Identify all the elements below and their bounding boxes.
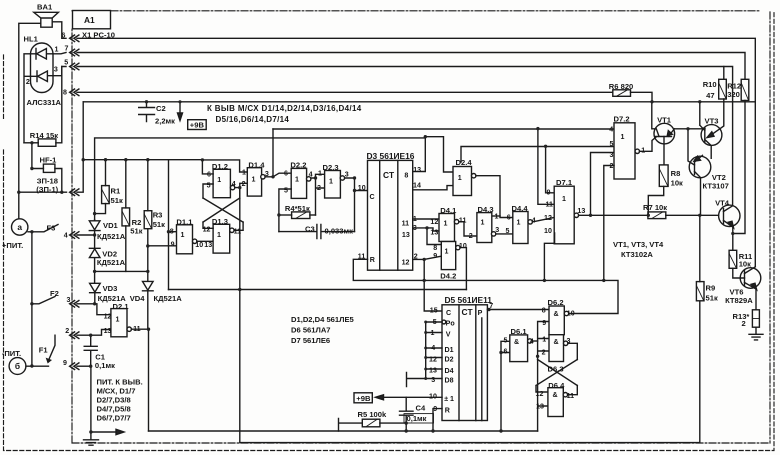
svg-text:1: 1 <box>562 195 566 203</box>
wire R4 left <box>279 214 292 216</box>
svg-text:R14 15к: R14 15к <box>30 131 58 140</box>
resistor R12 <box>741 79 749 100</box>
svg-text:КД521А: КД521А <box>154 294 183 303</box>
svg-text:51к: 51к <box>153 220 165 229</box>
svg-text:0,1мк: 0,1мк <box>407 414 427 423</box>
connector pin 8 arrow <box>70 89 79 96</box>
wire R14 left <box>24 142 38 144</box>
connector pin 2 arrow <box>70 332 79 339</box>
connector pin 4 arrow <box>70 232 79 239</box>
svg-text:4: 4 <box>609 125 613 133</box>
svg-text:D6.2: D6.2 <box>548 298 564 307</box>
wire D7.1 out to R7 with D7.2 pin3 branch <box>579 153 648 216</box>
svg-text:12: 12 <box>203 225 211 233</box>
svg-text:1: 1 <box>295 176 299 184</box>
wire D4.3 out to D4.4 pin5 <box>496 233 513 235</box>
resistor R11 <box>729 250 737 268</box>
svg-text:М/СХ, D1/7: М/СХ, D1/7 <box>97 387 136 396</box>
wire D7.2 out to VT1 base <box>640 137 657 152</box>
svg-text:1: 1 <box>621 133 625 141</box>
diode VD4 <box>143 246 154 329</box>
wire D2.4 out down to D4.3 top <box>476 176 513 218</box>
svg-text:51к: 51к <box>706 293 718 302</box>
svg-text:D4: D4 <box>445 367 454 375</box>
transistor VT3 <box>701 125 722 146</box>
gate D7.2 output bubble <box>635 149 639 153</box>
bottom rail y431 <box>149 430 538 432</box>
svg-text:D8: D8 <box>445 376 454 384</box>
LED display HL1 stadium body <box>31 43 54 93</box>
svg-text:10: 10 <box>567 310 575 318</box>
D5 left input bus <box>426 322 442 379</box>
svg-text:6: 6 <box>62 32 66 40</box>
svg-text:2: 2 <box>469 232 473 240</box>
gate D2.4 output bubble <box>472 174 476 178</box>
svg-text:2: 2 <box>414 253 418 261</box>
svg-text:R7 10к: R7 10к <box>643 203 667 212</box>
svg-text:VD4: VD4 <box>130 294 146 303</box>
wire D3 pin14 output to D2.4 pin8 <box>413 186 453 190</box>
svg-text:К ВЫВ М/СХ D1/14,D2/14,D3/16,: К ВЫВ М/СХ D1/14,D2/14,D3/16,D4/14 <box>207 104 362 113</box>
svg-text:2: 2 <box>610 162 614 170</box>
svg-text:3: 3 <box>413 224 417 232</box>
counter D3 561IE16 box <box>368 160 413 270</box>
wire D1.4 out to D2.2 pin6 and up-branch <box>265 129 291 177</box>
svg-text:7: 7 <box>65 45 69 53</box>
svg-text:&: & <box>553 391 558 399</box>
wire HF-1 left <box>32 143 44 169</box>
wire net x537.6 (D6 latch common) <box>538 322 549 432</box>
svg-text:3: 3 <box>431 376 435 384</box>
wire W2 y289.5 <box>169 289 467 291</box>
svg-text:D5/16,D6/14,D7/14: D5/16,D6/14,D7/14 <box>216 115 290 124</box>
svg-text:3: 3 <box>567 337 571 345</box>
capacitor C2 <box>139 102 155 122</box>
svg-text:3: 3 <box>345 170 349 178</box>
svg-text:D1.2: D1.2 <box>212 162 228 171</box>
gate D4.1 output bubble <box>454 220 458 224</box>
ground symbol under R13 <box>749 327 763 340</box>
resistor R5 <box>362 419 380 427</box>
svg-text:D5 561ИЕ11: D5 561ИЕ11 <box>445 295 493 305</box>
svg-text:11: 11 <box>234 227 242 235</box>
switch F1 arrowhead <box>47 359 51 363</box>
gate D2.3 output bubble <box>340 176 344 180</box>
svg-text:D6 561ЛА7: D6 561ЛА7 <box>291 325 331 334</box>
wire A: D1.4 net to D7.2 pin4 / D7.1 pin11 <box>273 128 614 204</box>
wire pin8 rail to R6 <box>77 91 613 93</box>
connector pin 5 arrow <box>70 63 79 70</box>
wire C1 bottom down to ground <box>90 366 92 432</box>
resistor R13 <box>752 310 759 327</box>
svg-text:4: 4 <box>64 232 68 240</box>
wire lower contact row y192 <box>19 102 83 192</box>
wire R14 right up to pin5 net <box>56 67 62 143</box>
svg-text:6: 6 <box>284 169 288 177</box>
svg-text:7: 7 <box>489 302 493 310</box>
svg-text:10к: 10к <box>671 178 683 187</box>
resistor R6 <box>613 90 631 97</box>
wire D2.2 pin5 <box>279 189 291 232</box>
switch F1 <box>48 335 55 361</box>
svg-text:F1: F1 <box>39 345 49 354</box>
wire D6.3 out to cross <box>568 343 577 359</box>
svg-text:D7 561ЛЕ6: D7 561ЛЕ6 <box>291 336 330 345</box>
connector pin 6 arrow <box>70 35 79 42</box>
svg-text:R10: R10 <box>703 80 717 89</box>
svg-text:10: 10 <box>459 242 467 250</box>
svg-text:13: 13 <box>402 231 410 239</box>
svg-text:3: 3 <box>495 226 499 234</box>
wire R10 bottom into VT3 emitter <box>709 99 724 137</box>
svg-text:D4/7,D5/8: D4/7,D5/8 <box>97 405 131 414</box>
svg-text:D4.3: D4.3 <box>478 205 494 214</box>
svg-text:2,2мк: 2,2мк <box>155 117 175 126</box>
wire speaker left to main left vertical <box>19 23 41 219</box>
svg-text:13: 13 <box>204 241 212 249</box>
wire R8 bottom to R7 left node <box>648 186 663 215</box>
svg-text:D7.2: D7.2 <box>614 114 630 123</box>
svg-text:12: 12 <box>430 218 438 226</box>
wire R11 bottom to VT6 base <box>733 268 745 278</box>
svg-text:0,1мк: 0,1мк <box>95 361 115 370</box>
svg-text:12: 12 <box>429 356 437 364</box>
svg-text:VT4: VT4 <box>715 199 730 208</box>
svg-text:13: 13 <box>430 229 438 237</box>
svg-text:10: 10 <box>195 241 203 249</box>
gate D1.4 <box>247 168 261 196</box>
svg-text:47: 47 <box>706 91 714 100</box>
svg-text:1: 1 <box>217 176 221 184</box>
wire D3 pin13 output stub <box>413 137 426 172</box>
svg-text:5: 5 <box>506 227 510 235</box>
+9V tap arrow near C2 <box>179 104 181 115</box>
diode VD1 <box>89 220 100 249</box>
svg-text:&: & <box>514 338 519 346</box>
gate D4.1 <box>439 214 455 242</box>
gate D2.1 output bubble <box>127 327 131 331</box>
wire x240.6 down to bottom rail B <box>240 188 700 443</box>
transistor VT6 <box>740 268 761 289</box>
svg-text:1: 1 <box>242 169 246 177</box>
svg-text:9: 9 <box>63 359 67 367</box>
svg-text:R9: R9 <box>706 284 716 293</box>
gate D4.2 <box>441 242 455 270</box>
resistor R3 <box>144 211 152 229</box>
svg-text:D4.4: D4.4 <box>512 204 529 213</box>
wire D2.3 out to D3 pin C <box>345 178 368 232</box>
gate D4.3 output bubble <box>491 232 495 236</box>
svg-text:1: 1 <box>542 336 546 344</box>
svg-text:1: 1 <box>252 176 256 184</box>
wire D6.1 inputs vertical x501 <box>501 341 510 431</box>
gate D4.4 output bubble <box>528 220 532 224</box>
svg-text:+9В: +9В <box>190 121 205 130</box>
wire VT1 emitter line to VT3 base <box>674 128 705 130</box>
gate D4.4 <box>513 212 528 244</box>
svg-text:D2.4: D2.4 <box>456 158 473 167</box>
svg-text:11: 11 <box>546 201 554 209</box>
svg-text:F2: F2 <box>50 289 59 298</box>
diode VD2 <box>89 248 100 271</box>
svg-text:HF-1: HF-1 <box>40 156 58 165</box>
switch F2 <box>32 297 111 315</box>
wire R2 bottom <box>125 226 127 272</box>
svg-text:2: 2 <box>317 184 321 192</box>
svg-text:1: 1 <box>116 316 120 324</box>
diode VD3 <box>90 271 101 303</box>
transistor VT4 <box>719 205 740 226</box>
svg-text:13: 13 <box>536 403 544 411</box>
gate D1.2 <box>213 169 230 197</box>
wire W1 feedback y280 to D6.2-out net <box>424 280 618 313</box>
svg-text:R3: R3 <box>153 211 163 220</box>
resistor R7 <box>648 212 666 219</box>
svg-text:9: 9 <box>433 252 437 260</box>
svg-text:8: 8 <box>433 244 437 252</box>
svg-text:9: 9 <box>542 319 546 327</box>
wire VD4 vertical down to bottom rail <box>148 329 150 431</box>
wire rail net pin7 to R12 <box>77 53 745 80</box>
svg-text:4: 4 <box>530 338 534 346</box>
svg-text:1: 1 <box>495 212 499 220</box>
svg-text:8: 8 <box>170 227 174 235</box>
svg-text:13: 13 <box>104 327 112 335</box>
wire HL1 pin1 to connector pin 7 <box>53 53 66 54</box>
D5 inner column lines <box>459 305 482 421</box>
svg-text:1: 1 <box>641 146 645 154</box>
svg-text:VD3: VD3 <box>103 284 118 293</box>
svg-text:-ПИТ.: -ПИТ. <box>2 349 21 358</box>
svg-text:R8: R8 <box>671 169 681 178</box>
svg-text:10: 10 <box>429 393 437 401</box>
svg-text:6: 6 <box>504 347 508 355</box>
terminal circle b <box>9 358 26 375</box>
gate D2.3 <box>325 171 341 199</box>
A1 box <box>73 11 111 29</box>
svg-text:D1: D1 <box>445 346 454 354</box>
gate D6.3 output bubble <box>564 341 568 345</box>
+9V arrowhead <box>376 395 384 400</box>
wire rail net pin5 to VT4 collector <box>77 67 733 206</box>
svg-text:11: 11 <box>459 216 467 224</box>
svg-text:5: 5 <box>504 337 508 345</box>
svg-text:б: б <box>15 361 20 371</box>
resistor R8 <box>659 165 668 187</box>
svg-text:R5 100k: R5 100k <box>358 410 387 419</box>
gate D6.4 <box>548 388 563 417</box>
svg-text:5: 5 <box>64 59 68 67</box>
gate D6.4 output bubble <box>563 393 567 397</box>
wire D7.2 pin2 from D6 net <box>604 166 614 280</box>
svg-text:11: 11 <box>567 392 575 400</box>
svg-text:R: R <box>445 406 450 414</box>
svg-text:КТ3102А: КТ3102А <box>621 250 653 259</box>
svg-text:A1: A1 <box>84 15 95 25</box>
gate D4.2 output bubble <box>456 245 460 249</box>
gate D1.1 <box>177 225 193 254</box>
svg-text:D7.1: D7.1 <box>556 178 573 187</box>
svg-text:D2: D2 <box>445 355 454 363</box>
wire feedback vertical x168.5 <box>168 160 170 290</box>
svg-text:14: 14 <box>413 181 421 189</box>
svg-text:D1.4: D1.4 <box>248 160 265 169</box>
svg-text:11: 11 <box>133 325 141 333</box>
gate D1.1 output bubble <box>193 239 197 243</box>
wire R1 top <box>105 160 107 186</box>
svg-text:1: 1 <box>329 178 333 186</box>
gate D1.3 output bubble <box>230 228 234 232</box>
wire D6.4 out to cross <box>568 386 578 395</box>
wire pin9 net to C1 bottom <box>77 365 91 367</box>
svg-text:5: 5 <box>284 186 288 194</box>
svg-text:V: V <box>446 330 451 338</box>
wire diode row y271.4 <box>95 270 148 272</box>
wire D6.1 out to x537.6 net <box>532 340 538 342</box>
gate D6.1 output bubble <box>528 339 532 343</box>
svg-text:КД521А: КД521А <box>97 232 126 241</box>
svg-text:6: 6 <box>207 170 211 178</box>
svg-text:1: 1 <box>444 220 448 228</box>
connector pin 7 arrow <box>70 49 79 56</box>
svg-text:4: 4 <box>232 180 236 188</box>
svg-text:4: 4 <box>532 216 536 224</box>
wire D5 P out to D6.2 pin8 <box>487 309 549 311</box>
gate D6.1 <box>510 335 528 362</box>
gate D1.2 output bubble <box>230 185 234 189</box>
switch F3 <box>28 225 95 236</box>
svg-text:D6.1: D6.1 <box>511 327 528 336</box>
svg-text:CT: CT <box>383 170 395 180</box>
svg-text:VT3: VT3 <box>705 116 719 125</box>
buzzer HF-1 box <box>43 164 55 172</box>
wire speaker right to pin 6 <box>52 22 66 39</box>
svg-text:51к: 51к <box>130 227 142 236</box>
junction dots <box>17 191 20 194</box>
svg-text:8: 8 <box>404 172 408 180</box>
wire D1.4 pin1 from top bus <box>202 160 247 172</box>
gate D2.2 output bubble <box>307 177 311 181</box>
wire D4.2 out down to W2 <box>460 248 466 290</box>
svg-text:D2/7,D3/8: D2/7,D3/8 <box>97 396 131 405</box>
wire D4.3 pin1 entry <box>492 215 500 217</box>
svg-text:12: 12 <box>104 312 112 320</box>
svg-text:9: 9 <box>547 188 551 196</box>
svg-text:D4.1: D4.1 <box>440 206 457 215</box>
svg-text:3: 3 <box>54 66 58 74</box>
frame around C4 value <box>404 414 434 423</box>
svg-text:C2: C2 <box>156 104 166 113</box>
wire C: y146 to D7.2 pin5 / D7.1 pin9 <box>461 146 614 193</box>
capacitor C4 <box>400 397 414 431</box>
svg-text:P: P <box>478 309 483 317</box>
gate D1.4 output bubble <box>261 175 265 179</box>
power arrow pointer to chip pins <box>91 431 116 433</box>
transistor VT2 <box>689 156 711 178</box>
+9V box frame lower <box>354 393 372 403</box>
svg-text:9: 9 <box>433 405 437 413</box>
svg-text:12: 12 <box>402 259 410 267</box>
svg-text:а: а <box>17 222 22 232</box>
svg-text:1: 1 <box>55 46 59 54</box>
wire D1.1 out to D1.3 pin13 <box>197 240 213 242</box>
wire D1.2 pin6 from bus <box>202 160 213 174</box>
wire HF-1 right down to lower arrow <box>55 169 62 193</box>
svg-text:ЗП-18: ЗП-18 <box>37 176 58 185</box>
svg-text:C4: C4 <box>416 404 426 413</box>
svg-text:8: 8 <box>542 306 546 314</box>
wire pin2 net to D2.1 pin13 <box>77 330 111 336</box>
svg-text:BA1: BA1 <box>37 3 53 12</box>
svg-text:12: 12 <box>536 390 544 398</box>
svg-text:F3: F3 <box>47 224 56 233</box>
svg-text:VT1: VT1 <box>657 116 672 125</box>
svg-text:D4.2: D4.2 <box>440 271 456 280</box>
svg-text:11: 11 <box>402 220 410 228</box>
svg-text:C: C <box>446 309 451 317</box>
cross-couple X D1.2/D1.3 <box>203 198 243 222</box>
D5 Po bubble <box>442 320 446 324</box>
svg-text:(ЗП-1): (ЗП-1) <box>36 185 58 194</box>
wire HL1 pin3 up to connector pin 5 <box>53 67 66 76</box>
wire R5 right to C4 <box>380 422 406 424</box>
svg-text:1: 1 <box>517 219 521 227</box>
svg-text:+ПИТ.: +ПИТ. <box>2 241 23 250</box>
gate D7.1 output bubble <box>574 213 578 217</box>
wire R3 top <box>147 160 149 211</box>
svg-text:D1.1: D1.1 <box>176 217 193 226</box>
D3 inner column lines <box>380 160 398 270</box>
gate D6.2 <box>549 306 564 335</box>
svg-text:R2: R2 <box>132 218 142 227</box>
svg-text:D2.2: D2.2 <box>290 161 306 170</box>
gate D2.2 <box>291 168 306 198</box>
gate D7.1 <box>554 186 574 244</box>
svg-text:КД521А: КД521А <box>97 258 126 267</box>
R5 left bar terminator <box>339 419 363 432</box>
svg-text:АЛС331А: АЛС331А <box>27 98 62 107</box>
wire HL1 cathodes to left vertical x24 <box>24 54 37 143</box>
svg-text:+9В: +9В <box>356 394 371 403</box>
svg-text:10: 10 <box>358 184 366 192</box>
svg-text:D3 561ИЕ16: D3 561ИЕ16 <box>367 151 415 161</box>
svg-text:0,033мк: 0,033мк <box>325 226 354 235</box>
svg-text:1: 1 <box>431 329 435 337</box>
wire R7 right to VT4 base <box>666 214 719 216</box>
connector pin 9 arrow <box>70 363 79 370</box>
wire D7.1 pin10 zig to W1 <box>544 233 554 280</box>
+9V rail y101.8 <box>83 101 755 103</box>
svg-text:5: 5 <box>207 181 211 189</box>
svg-text:4: 4 <box>309 170 313 178</box>
svg-text:VT1, VT3, VT4: VT1, VT3, VT4 <box>613 240 664 249</box>
svg-text:R1: R1 <box>111 187 121 196</box>
svg-text:HL1: HL1 <box>24 35 39 44</box>
wire R12 bottom down to VT4 emitter net <box>733 101 745 234</box>
svg-text:9: 9 <box>171 240 175 248</box>
wire R3 bottom to VD4/D1.1 pin9 <box>148 229 177 246</box>
svg-text:15: 15 <box>430 306 438 314</box>
gate D1.3 <box>213 224 230 253</box>
svg-text:8: 8 <box>63 89 67 97</box>
svg-text:&: & <box>554 338 559 346</box>
gate D6.3 <box>549 335 564 362</box>
gate D7.2 <box>614 123 635 179</box>
resistor R9 <box>696 282 704 301</box>
svg-text:X1 PC-10: X1 PC-10 <box>82 30 115 39</box>
resistor R4 <box>292 212 310 219</box>
wire R2 top <box>125 160 127 208</box>
